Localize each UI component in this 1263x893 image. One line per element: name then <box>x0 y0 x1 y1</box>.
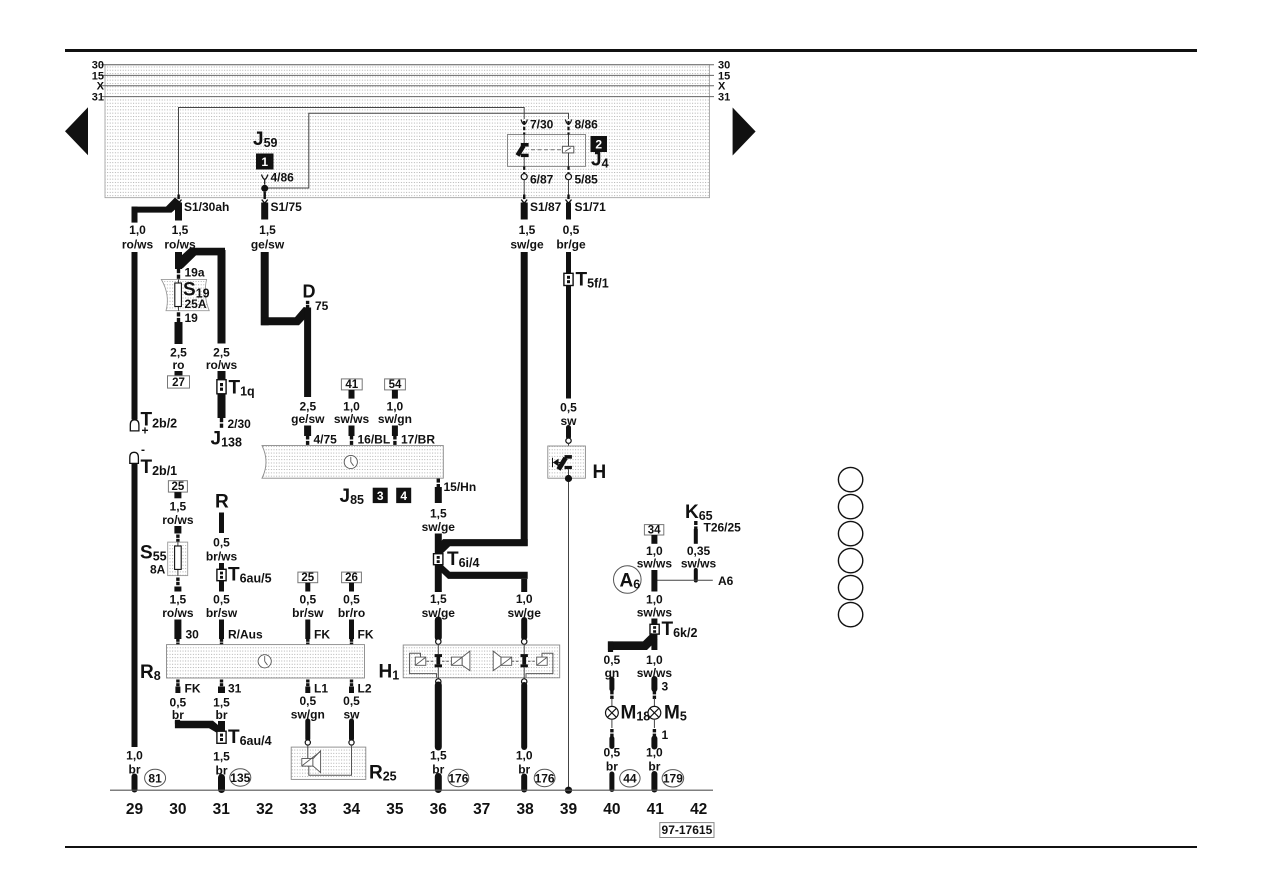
wire col30 to fuse S55 <box>174 526 181 534</box>
wire col33 to R8 pin FK <box>305 620 310 640</box>
svg-text:31: 31 <box>213 801 231 818</box>
wire col29 T2b/1 down to ground <box>132 464 138 747</box>
svg-text:A6: A6 <box>718 574 734 588</box>
svg-text:ge/sw: ge/sw <box>291 412 325 426</box>
wire below T6au/5 (0,5 br/sw) <box>219 581 224 592</box>
wire col36 horn to ground (1,5 br) <box>435 685 442 747</box>
svg-text:0,5: 0,5 <box>213 593 230 607</box>
svg-text:0,5: 0,5 <box>299 593 316 607</box>
svg-text:176: 176 <box>448 771 468 785</box>
terminal box 27 <box>168 376 190 388</box>
ground symbol 176 col36 <box>448 769 469 786</box>
connector T6au/4 <box>217 731 226 743</box>
wire col36 to horn H1 <box>435 620 442 638</box>
wire label 0,5 br/ro col34 <box>338 593 365 621</box>
ground symbol 81 <box>145 769 166 786</box>
svg-text:1,5: 1,5 <box>213 750 230 764</box>
svg-text:19: 19 <box>185 311 199 325</box>
svg-text:1: 1 <box>261 155 268 169</box>
ground rail line <box>110 789 713 791</box>
wire label 2,5 ro/ws col31 <box>206 346 238 373</box>
svg-text:32: 32 <box>256 801 273 818</box>
svg-text:34: 34 <box>648 524 661 536</box>
wire label 0,5 br col30 bottom <box>170 696 187 723</box>
svg-text:sw/ws: sw/ws <box>637 606 673 620</box>
wire col30 down to 19a <box>175 252 182 269</box>
wire branch upper bar into T6i/4 <box>435 539 528 554</box>
svg-text:97-17615: 97-17615 <box>662 823 713 837</box>
wire label 1,5 sw/ge col36 lower <box>422 592 456 620</box>
svg-text:1,5: 1,5 <box>259 223 276 237</box>
wire col36 to T6i/4 <box>435 534 442 554</box>
wire col31 to R8 pin R/Aus <box>219 620 224 640</box>
ground symbol 44 <box>620 770 640 787</box>
wire col38 horn to ground (1,0 br) <box>521 685 527 747</box>
wire T1q to 2/30 <box>218 394 226 418</box>
terminal S1/30ah <box>176 195 182 204</box>
svg-text:33: 33 <box>299 801 317 818</box>
wire 0,35 to node A6 <box>694 570 698 581</box>
wire 0,35 sw/ws upper <box>694 529 698 544</box>
wire label 1,0 sw/gn col35 <box>378 400 412 427</box>
legend circle 5 <box>838 575 862 599</box>
wire label 0,5 gn col40 <box>604 653 621 680</box>
connector T6au/5 <box>217 569 226 580</box>
svg-text:sw/ws: sw/ws <box>681 557 717 571</box>
horn H1 entry circles <box>436 639 441 644</box>
svg-text:0,5: 0,5 <box>604 746 621 760</box>
right page arrow <box>733 108 756 156</box>
svg-text:sw/ge: sw/ge <box>510 238 544 252</box>
legend circle 3 <box>838 521 862 545</box>
wire col40 stub to M18 <box>609 679 614 689</box>
svg-text:37: 37 <box>473 801 490 818</box>
wire col41 to T6k/2 <box>651 619 657 625</box>
svg-text:135: 135 <box>230 771 250 785</box>
wire label 1,0 br col41 <box>646 746 663 774</box>
svg-text:1,5: 1,5 <box>170 593 187 607</box>
wire 2,5 ro col30 <box>175 322 183 344</box>
wire label 1,0 ro/ws col29 <box>122 223 154 252</box>
J59 pin 4/86 connector <box>262 175 268 185</box>
wire col41 stub to M5 <box>651 679 657 689</box>
svg-text:25: 25 <box>172 481 185 493</box>
wire branch lower bar from T6i/4 <box>435 564 528 579</box>
svg-text:176: 176 <box>535 771 555 785</box>
svg-text:0,5: 0,5 <box>343 593 360 607</box>
svg-text:0,5: 0,5 <box>213 536 230 550</box>
svg-text:27: 27 <box>172 377 185 389</box>
svg-text:br/ge: br/ge <box>556 238 586 252</box>
legend circle 6 <box>838 602 862 626</box>
connector T1q <box>217 380 226 394</box>
wire S1/87 down (1,5 sw/ge) <box>521 203 528 220</box>
wire T5f/1 down (0,5 sw) <box>566 286 571 399</box>
J85 clock symbol <box>344 455 357 468</box>
svg-text:1,0: 1,0 <box>646 653 663 667</box>
svg-text:FK: FK <box>185 682 201 696</box>
wire S1/75 down (1,5 ge/sw) <box>261 203 268 220</box>
svg-text:ro/ws: ro/ws <box>162 513 194 527</box>
wire col34 to R25 <box>349 721 354 739</box>
wire label 1,0 sw/ws col34 <box>334 400 370 427</box>
wire col39 to T5f/1 <box>566 252 571 273</box>
wire label 2,5 ro <box>170 346 187 373</box>
harness point A6 circle <box>614 566 642 594</box>
svg-text:1,5: 1,5 <box>519 223 536 237</box>
svg-text:sw/ws: sw/ws <box>334 412 370 426</box>
wire below M5 <box>653 719 655 728</box>
plus connector T2b/2 <box>130 420 139 431</box>
wire jog col30 to col31 (2,5 ro/ws) <box>175 248 225 269</box>
svg-text:br/sw: br/sw <box>206 606 238 620</box>
wire R down (0,5 br/ws) <box>219 513 224 534</box>
svg-text:0,5: 0,5 <box>604 653 621 667</box>
svg-text:35: 35 <box>386 801 404 818</box>
svg-text:3: 3 <box>662 680 669 694</box>
relay R8 box <box>167 645 365 678</box>
wire label 0,5 br/sw col33 <box>292 593 324 621</box>
wire label 1,5 sw/ge col38 <box>510 223 544 252</box>
fuse S55 element <box>177 542 179 576</box>
relay J4 box <box>508 135 586 167</box>
left page arrow <box>65 107 88 155</box>
bus bar X <box>101 85 715 87</box>
ground symbol 179 <box>662 770 684 787</box>
svg-text:1,0: 1,0 <box>646 593 663 607</box>
svg-text:4/86: 4/86 <box>271 171 295 185</box>
connector T5f/1 <box>564 273 573 285</box>
wire label 0,35 sw/ws <box>681 544 717 571</box>
pin 16/BL connector <box>350 436 353 445</box>
R25 speaker symbol <box>302 745 352 775</box>
legend circle 2 <box>838 494 862 518</box>
top border rule <box>65 49 1197 52</box>
svg-text:0,5: 0,5 <box>299 694 316 708</box>
wire label 0,5 br/ws <box>206 536 238 564</box>
svg-text:S1/75: S1/75 <box>271 200 303 214</box>
svg-text:30: 30 <box>186 628 200 642</box>
node junction at ground <box>565 787 572 794</box>
wire label 1,0 br col29 bottom <box>126 749 143 777</box>
bus band dotted area <box>105 65 710 198</box>
wire label 1,5 br col31 bottom <box>213 696 230 723</box>
wire col29 down to T2b/2 <box>132 252 138 420</box>
legend circle 4 <box>838 548 862 572</box>
svg-text:38: 38 <box>516 801 534 818</box>
bottom border rule <box>65 846 1197 848</box>
svg-text:17/BR: 17/BR <box>401 433 435 447</box>
bus bar 30 <box>101 64 715 66</box>
wire S1/71 down (0,5 br/ge) <box>566 203 571 220</box>
svg-text:R/Aus: R/Aus <box>228 628 263 642</box>
R8 pin 31 bottom col31 <box>220 680 223 687</box>
svg-text:br/sw: br/sw <box>292 606 324 620</box>
svg-text:br: br <box>606 760 618 774</box>
wire label 0,5 sw col39 <box>560 401 577 429</box>
svg-text:1,0: 1,0 <box>126 749 143 763</box>
bulb M5 <box>648 706 661 719</box>
svg-text:40: 40 <box>603 801 620 818</box>
connector T6k/2 <box>650 624 659 634</box>
wire col41 crossing A6 node <box>651 570 657 592</box>
fuse S19 box <box>161 279 209 310</box>
R8 pin FK bottom col30 <box>176 680 179 687</box>
J4 pin 8/86 <box>567 121 569 135</box>
wire col38 down from branch (1,0 sw/ge) <box>521 579 527 592</box>
svg-text:1,0: 1,0 <box>646 746 663 760</box>
wire col41 to ground <box>651 774 657 790</box>
wire label 0,5 br/ge col39 <box>556 223 586 252</box>
wire label 2,5 ge/sw col33 <box>291 400 325 427</box>
pin 17/BR connector <box>393 436 396 445</box>
svg-text:1,5: 1,5 <box>430 749 447 763</box>
svg-text:0,5: 0,5 <box>563 223 580 237</box>
svg-text:8/86: 8/86 <box>575 118 599 132</box>
J4 code box 2 <box>591 136 608 152</box>
ground symbol 135 <box>230 769 251 786</box>
svg-text:25A: 25A <box>185 297 207 311</box>
J4 pin 7/30 <box>523 121 525 135</box>
wire stub under 25 col33 <box>305 583 310 592</box>
wire label 1,5 sw/ge col36 upper <box>422 507 456 535</box>
svg-text:1: 1 <box>662 728 669 742</box>
svg-text:29: 29 <box>126 801 144 818</box>
svg-text:ro/ws: ro/ws <box>122 238 154 252</box>
svg-text:5/85: 5/85 <box>575 173 599 187</box>
svg-text:sw/ge: sw/ge <box>422 520 456 534</box>
svg-text:36: 36 <box>430 801 448 818</box>
svg-text:FK: FK <box>314 628 330 642</box>
svg-text:sw/ws: sw/ws <box>637 557 673 571</box>
svg-text:31: 31 <box>92 92 104 104</box>
wire dashed 4/86 to S1/75 <box>264 192 266 198</box>
wire col38 long down to T6i/4 branch <box>521 252 528 546</box>
svg-text:br/ws: br/ws <box>206 550 238 564</box>
R8 pin L1 bottom col33 <box>306 680 309 687</box>
buzzer R25 box <box>291 747 366 779</box>
column numbers <box>126 801 707 818</box>
svg-text:S1/71: S1/71 <box>575 200 607 214</box>
svg-text:R: R <box>215 492 229 513</box>
wire col31 to ground <box>218 778 225 790</box>
svg-text:44: 44 <box>623 772 637 786</box>
svg-text:ge/sw: ge/sw <box>251 238 285 252</box>
wire stub under 41 <box>349 390 355 399</box>
wire node line A6 <box>654 579 712 581</box>
J59 code box 1 <box>256 154 274 170</box>
wire jog to column 29 <box>132 198 183 213</box>
wire 15/Hn down <box>435 487 442 503</box>
wire stub under 34 <box>651 535 657 544</box>
svg-text:1,5: 1,5 <box>170 500 187 514</box>
wire col39 to switch H <box>566 428 571 438</box>
R8 pin L2 bottom col34 <box>350 680 353 687</box>
svg-text:8A: 8A <box>150 563 166 577</box>
horn unit H1 box <box>403 645 560 678</box>
wire col34 to J85 pin 16/BL <box>349 426 355 437</box>
terminal S1/87 <box>521 195 527 204</box>
wire col36 down from T6i/4 <box>435 565 442 592</box>
wire col31 to T6au/5 <box>219 563 224 570</box>
svg-text:25: 25 <box>301 572 314 584</box>
terminal box 54 <box>385 379 406 390</box>
svg-text:30: 30 <box>169 801 186 818</box>
svg-text:1,0: 1,0 <box>129 223 146 237</box>
fuse S19 element <box>178 279 180 310</box>
wire stub under 26 col34 <box>349 583 354 592</box>
J4 contact symbol <box>518 135 529 167</box>
pin 19 connector <box>177 312 180 322</box>
svg-text:1,5: 1,5 <box>430 507 447 521</box>
legend circle 1 <box>838 467 862 491</box>
horn switch H box <box>548 446 586 478</box>
wire label 1,5 ro/ws col30 <box>164 223 196 252</box>
svg-text:3: 3 <box>377 489 384 503</box>
svg-text:7/30: 7/30 <box>530 118 554 132</box>
svg-text:ro/ws: ro/ws <box>162 606 194 620</box>
wire: riser S1/30ah to 7/30 <box>179 108 525 198</box>
diagram number box 97-17615 <box>660 823 714 838</box>
wire label 0,5 br/sw col31 <box>206 593 238 621</box>
svg-text:2/30: 2/30 <box>228 417 252 431</box>
wire col29 to ground <box>132 777 138 790</box>
wire below S55 <box>176 578 179 586</box>
svg-text:ro: ro <box>173 358 185 372</box>
wire col31 down (2,5 ro/ws) <box>218 250 226 344</box>
svg-text:br/ro: br/ro <box>338 606 365 620</box>
terminal box 26 col34 <box>342 572 362 583</box>
ground symbol 176 col38 <box>534 769 555 786</box>
svg-text:ro/ws: ro/ws <box>206 358 238 372</box>
svg-text:39: 39 <box>560 801 578 818</box>
fuse S55 box <box>168 542 188 576</box>
terminal box 41 <box>341 379 362 390</box>
wire jog col30 to col31 above T6au/4 <box>175 721 223 734</box>
wire label 0,5 sw col34 bottom <box>343 694 360 722</box>
svg-text:T26/25: T26/25 <box>704 521 742 535</box>
svg-text:15/Hn: 15/Hn <box>444 480 477 494</box>
svg-text:31: 31 <box>228 682 242 696</box>
wire label 1,5 ro/ws col30 lower <box>162 593 194 621</box>
wire col38 to horn H1 <box>521 620 527 638</box>
svg-text:26: 26 <box>345 572 358 584</box>
R8 clock symbol <box>258 655 271 668</box>
wire col35 to J85 pin 17/BR <box>392 426 398 437</box>
wire S1/30ah down (1,5 ro/ws) <box>175 203 182 221</box>
wire col41 below T6k/2 <box>651 634 657 650</box>
wire label 0,5 sw/gn col33 bottom <box>291 694 325 722</box>
svg-text:1,5: 1,5 <box>430 592 447 606</box>
wire col31 to T1q <box>218 371 226 380</box>
H1 exit circles <box>436 679 441 684</box>
terminal box 25 col33 <box>298 572 318 583</box>
svg-text:1,0: 1,0 <box>516 592 533 606</box>
svg-text:sw/gn: sw/gn <box>378 412 412 426</box>
node junction at H bottom <box>565 475 572 482</box>
pin T26/25 connector <box>694 521 697 530</box>
J4 coil symbol <box>531 135 574 167</box>
bus bar 31 <box>101 96 715 98</box>
svg-text:75: 75 <box>315 299 329 313</box>
wire stub under 25 <box>174 492 181 498</box>
svg-text:1,5: 1,5 <box>172 223 189 237</box>
wire stub under 54 <box>392 390 398 399</box>
svg-text:31: 31 <box>718 92 730 104</box>
terminal S1/75 <box>262 195 268 204</box>
minus connector T2b/1 <box>130 452 139 463</box>
wire col34 to R8 pin FK <box>349 620 354 640</box>
connector T6i/4 <box>434 554 443 565</box>
svg-text:34: 34 <box>343 801 361 818</box>
svg-text:br: br <box>216 708 228 722</box>
wire label 1,0 sw/ge col38 lower <box>508 592 542 620</box>
pin 15/Hn connector <box>437 479 440 488</box>
svg-text:0,5: 0,5 <box>560 401 577 415</box>
pin 2/30 connector <box>220 418 223 428</box>
bus bar 15 <box>101 74 715 76</box>
wire label 1,5 br col31 lowest <box>213 750 230 778</box>
svg-text:0,5: 0,5 <box>343 694 360 708</box>
control unit J85 box <box>262 446 443 479</box>
J85 code box 3 <box>373 488 388 503</box>
svg-text:16/BL: 16/BL <box>358 433 391 447</box>
svg-text:41: 41 <box>345 379 358 391</box>
J85 code box 4 <box>396 488 411 503</box>
wire label 1,0 sw/ws col41 mid <box>637 593 673 620</box>
wire H to ground line <box>568 482 570 790</box>
wire label 1,5 ro/ws col30 mid <box>162 500 194 528</box>
wire jog col32 to D pin 75 <box>261 307 311 325</box>
svg-text:19a: 19a <box>185 266 205 280</box>
wire col30 to R8 pin 30 <box>174 620 181 640</box>
J4 pin 6/87 <box>523 166 525 173</box>
wire below M18 <box>611 719 613 728</box>
wire label 1,5 ge/sw col32 <box>251 223 285 252</box>
terminal S1/71 <box>566 195 572 204</box>
svg-text:41: 41 <box>647 801 665 818</box>
wire col32 down to jog <box>261 252 269 325</box>
wire label 0,5 br col40 <box>604 746 621 774</box>
svg-text:S1/87: S1/87 <box>530 200 562 214</box>
bus labels left <box>92 60 105 104</box>
wire stub to terminal 27 <box>175 371 183 376</box>
bulb M18 <box>606 706 619 719</box>
H switch contact symbol <box>553 455 572 478</box>
svg-text:42: 42 <box>690 801 707 818</box>
pin 75 connector <box>306 301 309 308</box>
wire col33 to R25 <box>305 721 310 739</box>
node 4/86 junction dot <box>261 185 268 192</box>
H1 left horn internals <box>410 644 470 679</box>
wire col33 down (2,5 ge/sw) <box>304 308 311 398</box>
svg-text:81: 81 <box>148 771 162 785</box>
svg-text:S1/30ah: S1/30ah <box>184 200 229 214</box>
svg-text:1,0: 1,0 <box>516 749 533 763</box>
terminal box 34 <box>644 525 663 535</box>
H1 right horn internals <box>493 644 553 679</box>
wire label 1,0 sw/ws col41 upper <box>637 544 673 571</box>
bus labels right <box>718 60 730 104</box>
svg-text:6/87: 6/87 <box>530 173 554 187</box>
wire col40 to ground <box>609 774 614 790</box>
wire label 1,0 sw/ws col41 lower <box>637 653 673 680</box>
terminal box 25 col30 <box>168 481 187 492</box>
svg-text:4: 4 <box>400 489 407 503</box>
svg-text:4/75: 4/75 <box>314 433 338 447</box>
svg-text:D: D <box>303 282 316 302</box>
svg-text:FK: FK <box>358 628 374 642</box>
